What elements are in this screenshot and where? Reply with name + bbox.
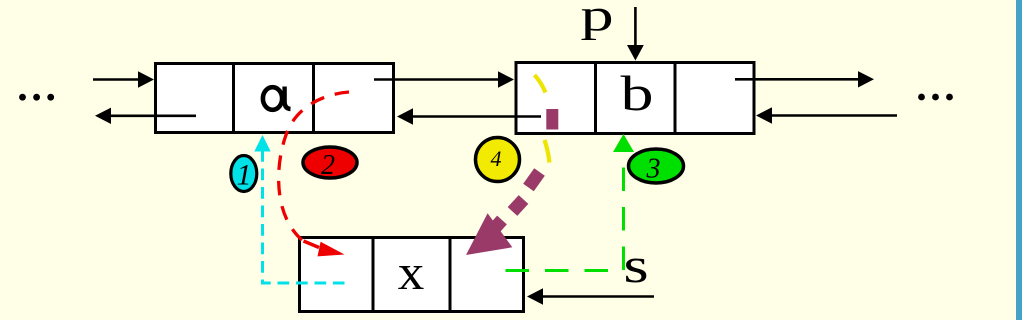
yellow dashed curve (step 4: b.prev to x) <box>535 75 550 163</box>
arrow a to b (forward) <box>374 71 514 87</box>
svg-text:x: x <box>398 245 425 300</box>
cyan dashed line (step 1: x.prev to a) <box>254 135 344 283</box>
oval marker 1 (cyan) <box>231 156 257 192</box>
oval marker 4 (yellow) <box>476 138 520 182</box>
svg-text:b: b <box>621 66 654 122</box>
ellipsis right <box>918 94 953 101</box>
svg-text:4: 4 <box>491 146 502 171</box>
node x box <box>300 238 524 312</box>
svg-text:2: 2 <box>321 150 335 181</box>
pointer p arrow (down into b) <box>627 7 644 61</box>
label a (single-story serif a drawn as shapes) <box>263 87 291 110</box>
svg-text:p: p <box>580 0 613 41</box>
arrow b to a (back) <box>397 108 541 124</box>
node a box <box>156 64 394 133</box>
purple thick dashed arrow (to x cell3) <box>466 109 558 255</box>
oval marker 2 (red) <box>303 147 357 181</box>
green dashed line (step 3: x.next / s to b) <box>506 134 635 271</box>
arrow s into x (back, to left) <box>527 288 654 304</box>
svg-text:1: 1 <box>237 159 252 192</box>
ellipsis left <box>19 94 54 101</box>
node b box <box>516 63 754 134</box>
oval marker 3 (green) <box>629 149 684 185</box>
arrow from right into b (back) <box>756 107 897 123</box>
arrow out of a cell1 (back, to left) <box>95 108 196 124</box>
svg-text:s: s <box>623 237 648 293</box>
arrow into a (forward, from left) <box>93 71 154 87</box>
arrow b to right (forward) <box>735 71 874 87</box>
svg-text:3: 3 <box>646 154 661 185</box>
red dashed curve (step 2: a.next to x) <box>279 92 349 256</box>
right blue border strip <box>1016 0 1022 320</box>
